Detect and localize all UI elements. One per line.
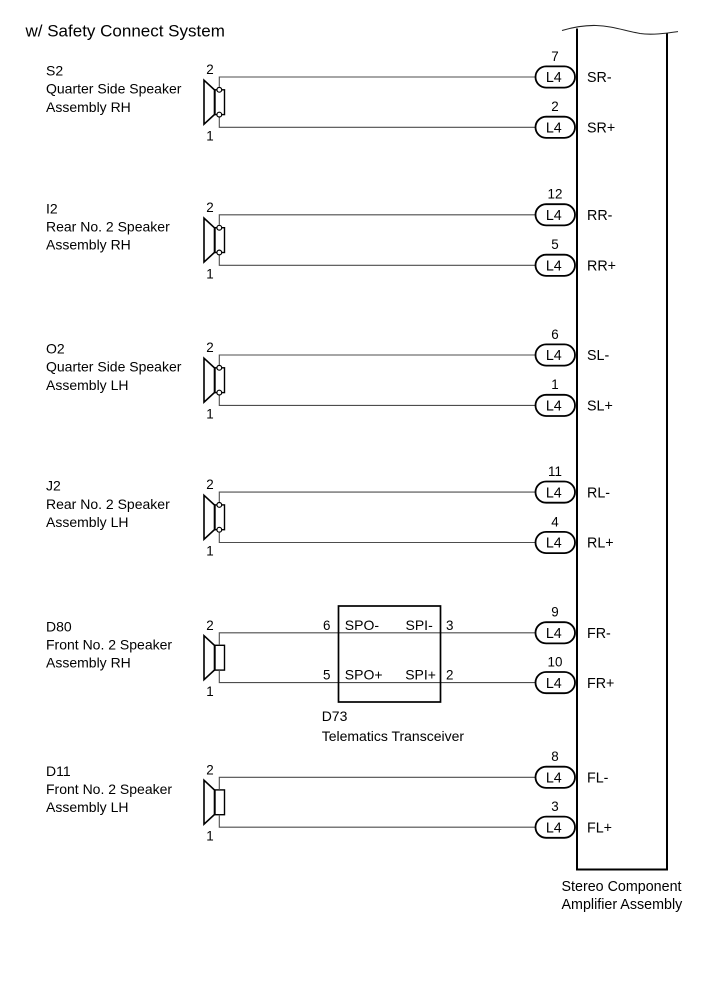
svg-text:L4: L4 bbox=[546, 208, 562, 224]
wire D80 pin1 to amp (FR+) bbox=[219, 670, 535, 683]
svg-text:FR+: FR+ bbox=[587, 676, 614, 692]
svg-text:3: 3 bbox=[446, 618, 453, 633]
wire D11 pin1 to amp (FL+) bbox=[219, 815, 535, 828]
svg-text:8: 8 bbox=[551, 749, 558, 764]
svg-text:1: 1 bbox=[206, 407, 213, 422]
connector L4 pin 6 (SL-) bbox=[536, 344, 576, 365]
speaker S2 terminal circles bbox=[217, 87, 222, 92]
svg-text:5: 5 bbox=[551, 237, 558, 252]
svg-text:Assembly RH: Assembly RH bbox=[46, 237, 131, 253]
wire J2 pin1 to amp (RL+) bbox=[219, 533, 535, 543]
svg-text:2: 2 bbox=[446, 668, 453, 683]
connector L4 pin 11 (RL-) bbox=[536, 482, 576, 503]
svg-text:SPO+: SPO+ bbox=[345, 667, 383, 683]
svg-text:L4: L4 bbox=[546, 771, 562, 787]
wire D80 pin2 to amp (FR-) bbox=[219, 633, 535, 646]
svg-text:RR+: RR+ bbox=[587, 259, 616, 275]
svg-text:Stereo Component: Stereo Component bbox=[562, 879, 682, 895]
svg-text:Telematics Transceiver: Telematics Transceiver bbox=[322, 728, 465, 744]
svg-text:Rear No. 2 Speaker: Rear No. 2 Speaker bbox=[46, 496, 170, 512]
svg-text:6: 6 bbox=[323, 618, 330, 633]
speaker O2 symbol bbox=[204, 358, 225, 402]
wire S2 pin2 to amp (SR-) bbox=[219, 77, 535, 87]
svg-text:J2: J2 bbox=[46, 478, 61, 494]
svg-text:Assembly RH: Assembly RH bbox=[46, 99, 131, 115]
wire I2 pin1 to amp (RR+) bbox=[219, 255, 535, 265]
svg-text:1: 1 bbox=[206, 828, 213, 843]
svg-text:2: 2 bbox=[551, 99, 558, 114]
speaker J2 symbol bbox=[204, 495, 225, 539]
svg-text:10: 10 bbox=[548, 654, 563, 669]
svg-text:2: 2 bbox=[206, 762, 213, 777]
svg-text:SL+: SL+ bbox=[587, 399, 613, 415]
svg-text:2: 2 bbox=[206, 477, 213, 492]
connector L4 pin 1 (SL+) bbox=[536, 395, 576, 416]
transceiver D73 box bbox=[339, 606, 441, 702]
connector L4 pin 5 (RR+) bbox=[536, 255, 576, 276]
svg-text:D73: D73 bbox=[322, 708, 348, 724]
svg-text:12: 12 bbox=[548, 187, 563, 202]
svg-text:SPI+: SPI+ bbox=[405, 667, 436, 683]
svg-text:2: 2 bbox=[206, 340, 213, 355]
amplifier box torn top (wavy) edge bbox=[562, 25, 678, 34]
svg-text:O2: O2 bbox=[46, 341, 65, 357]
speaker D80 symbol bbox=[204, 636, 225, 680]
svg-text:RL-: RL- bbox=[587, 485, 610, 501]
svg-text:FL+: FL+ bbox=[587, 820, 612, 836]
svg-text:FL-: FL- bbox=[587, 771, 609, 787]
svg-text:2: 2 bbox=[206, 200, 213, 215]
svg-text:L4: L4 bbox=[546, 676, 562, 692]
speaker S2 symbol bbox=[204, 80, 225, 124]
svg-text:Quarter Side Speaker: Quarter Side Speaker bbox=[46, 81, 182, 97]
svg-text:L4: L4 bbox=[546, 70, 562, 86]
svg-text:SPI-: SPI- bbox=[406, 617, 434, 633]
speaker I2 symbol bbox=[204, 218, 225, 262]
svg-text:Front No. 2 Speaker: Front No. 2 Speaker bbox=[46, 781, 172, 797]
svg-text:D80: D80 bbox=[46, 618, 72, 634]
svg-text:L4: L4 bbox=[546, 820, 562, 836]
svg-text:1: 1 bbox=[206, 544, 213, 559]
svg-text:L4: L4 bbox=[546, 399, 562, 415]
svg-text:L4: L4 bbox=[546, 348, 562, 364]
svg-text:2: 2 bbox=[206, 618, 213, 633]
speaker D11 symbol bbox=[204, 780, 225, 824]
svg-text:SR+: SR+ bbox=[587, 121, 615, 137]
svg-text:Assembly LH: Assembly LH bbox=[46, 377, 128, 393]
svg-text:Assembly LH: Assembly LH bbox=[46, 514, 128, 530]
wire S2 pin1 to amp (SR+) bbox=[219, 118, 535, 128]
svg-text:SL-: SL- bbox=[587, 348, 609, 364]
svg-text:Quarter Side Speaker: Quarter Side Speaker bbox=[46, 359, 182, 375]
amplifier box right edge bbox=[666, 34, 668, 870]
svg-text:6: 6 bbox=[551, 327, 558, 342]
svg-text:3: 3 bbox=[551, 799, 558, 814]
svg-text:L4: L4 bbox=[546, 485, 562, 501]
amplifier box left edge bbox=[576, 29, 578, 870]
svg-text:11: 11 bbox=[548, 464, 562, 479]
connector L4 pin 9 (FR-) bbox=[536, 622, 576, 643]
svg-text:2: 2 bbox=[206, 62, 213, 77]
svg-text:Front No. 2 Speaker: Front No. 2 Speaker bbox=[46, 637, 172, 653]
svg-text:Assembly RH: Assembly RH bbox=[46, 655, 131, 671]
svg-text:SPO-: SPO- bbox=[345, 617, 380, 633]
svg-text:Amplifier Assembly: Amplifier Assembly bbox=[562, 897, 684, 913]
speaker O2 terminal circles bbox=[217, 365, 222, 370]
wire O2 pin1 to amp (SL+) bbox=[219, 396, 535, 406]
connector L4 pin 4 (RL+) bbox=[536, 532, 576, 553]
wire O2 pin2 to amp (SL-) bbox=[219, 355, 535, 365]
wire J2 pin2 to amp (RL-) bbox=[219, 492, 535, 502]
amplifier box bottom edge bbox=[576, 869, 668, 871]
svg-text:L4: L4 bbox=[546, 259, 562, 275]
svg-text:SR-: SR- bbox=[587, 70, 612, 86]
connector L4 pin 10 (FR+) bbox=[536, 672, 576, 693]
svg-text:L4: L4 bbox=[546, 626, 562, 642]
svg-text:S2: S2 bbox=[46, 63, 63, 79]
svg-text:RR-: RR- bbox=[587, 208, 613, 224]
svg-text:1: 1 bbox=[551, 377, 558, 392]
svg-text:5: 5 bbox=[323, 668, 330, 683]
connector L4 pin 12 (RR-) bbox=[536, 204, 576, 225]
svg-text:L4: L4 bbox=[546, 536, 562, 552]
speaker J2 terminal circles bbox=[217, 503, 222, 508]
speaker I2 terminal circles bbox=[217, 225, 222, 230]
svg-text:4: 4 bbox=[551, 514, 559, 529]
wire I2 pin2 to amp (RR-) bbox=[219, 215, 535, 225]
svg-text:D11: D11 bbox=[46, 763, 71, 779]
svg-text:1: 1 bbox=[206, 129, 213, 144]
connector L4 pin 7 (SR-) bbox=[536, 66, 576, 87]
connector L4 pin 3 (FL+) bbox=[536, 817, 576, 838]
connector L4 pin 2 (SR+) bbox=[536, 117, 576, 138]
svg-text:9: 9 bbox=[551, 605, 558, 620]
svg-text:1: 1 bbox=[206, 267, 213, 282]
svg-text:FR-: FR- bbox=[587, 626, 611, 642]
svg-text:I2: I2 bbox=[46, 200, 58, 216]
svg-text:Rear No. 2 Speaker: Rear No. 2 Speaker bbox=[46, 219, 170, 235]
svg-text:w/ Safety Connect System: w/ Safety Connect System bbox=[25, 22, 225, 41]
connector L4 pin 8 (FL-) bbox=[536, 767, 576, 788]
svg-text:RL+: RL+ bbox=[587, 536, 614, 552]
svg-text:7: 7 bbox=[551, 49, 558, 64]
wire D11 pin2 to amp (FL-) bbox=[219, 777, 535, 790]
svg-text:1: 1 bbox=[206, 684, 213, 699]
svg-text:L4: L4 bbox=[546, 121, 562, 137]
svg-text:Assembly LH: Assembly LH bbox=[46, 799, 128, 815]
